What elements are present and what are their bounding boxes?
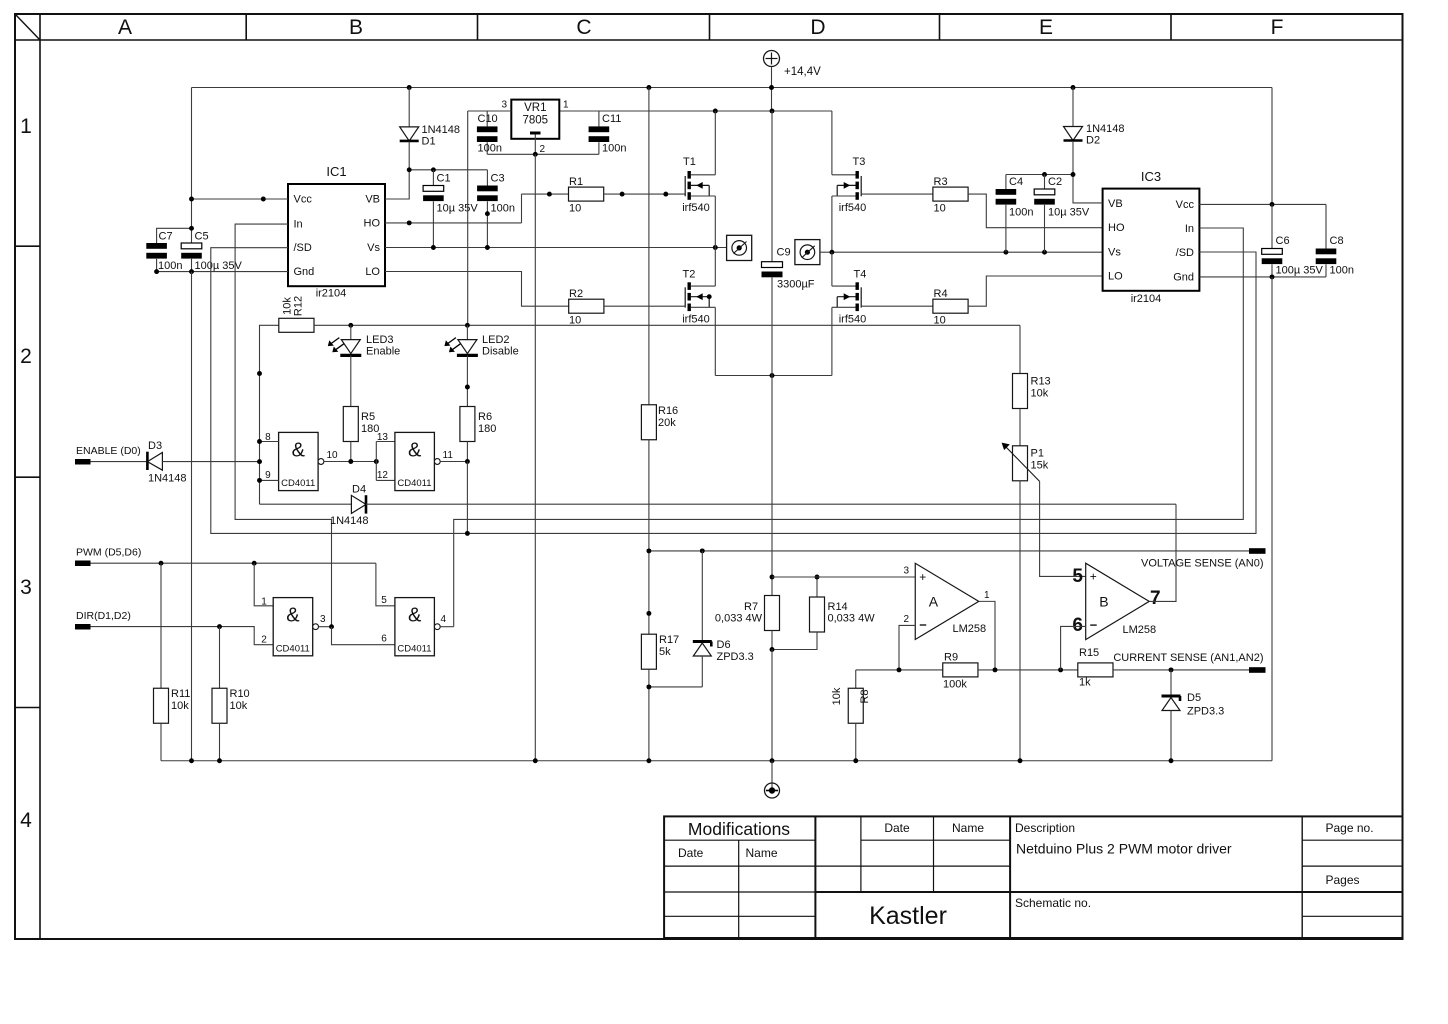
wire IC3 Vcc (1199, 88, 1326, 207)
svg-text:/SD: /SD (294, 242, 312, 254)
svg-text:100n: 100n (1330, 265, 1354, 277)
svg-text:VB: VB (1108, 198, 1123, 210)
svg-text:20k: 20k (658, 417, 676, 429)
svg-text:6: 6 (1072, 615, 1083, 636)
connector M- (795, 240, 832, 265)
svg-text:R11: R11 (171, 688, 190, 700)
svg-text:D1: D1 (422, 136, 436, 148)
diode D1 1N4148 (400, 88, 460, 170)
svg-text:R14: R14 (828, 601, 848, 613)
wire ground rail (161, 758, 1272, 763)
svg-text:D2: D2 (1086, 135, 1100, 147)
capacitor C6 100u 35V (1262, 204, 1324, 277)
svg-text:2: 2 (903, 614, 909, 625)
op-amp B LM258 (1061, 504, 1176, 670)
svg-text:Modifications: Modifications (688, 819, 790, 839)
svg-text:100n: 100n (158, 260, 182, 272)
svg-text:R9: R9 (944, 652, 958, 664)
resistor R15 1k (1078, 647, 1249, 689)
wire IC1 HO (385, 194, 522, 225)
svg-text:Page no.: Page no. (1326, 821, 1374, 835)
svg-text:2: 2 (261, 635, 267, 646)
op-amp A LM258 (772, 563, 995, 670)
svg-text:LO: LO (1108, 271, 1123, 283)
svg-text:100n: 100n (478, 143, 502, 155)
svg-text:10k: 10k (230, 700, 248, 712)
capacitor C1 10u 35V (423, 170, 478, 248)
title block (664, 816, 1402, 938)
svg-text:&: & (292, 439, 306, 461)
svg-text:R5: R5 (361, 411, 375, 423)
svg-text:Name: Name (952, 821, 984, 835)
svg-text:13: 13 (377, 432, 389, 443)
svg-text:HO: HO (1108, 222, 1125, 234)
svg-text:+: + (1090, 570, 1097, 584)
svg-text:D4: D4 (352, 484, 366, 496)
svg-text:5k: 5k (659, 646, 671, 658)
wire IC1 In bus (235, 224, 331, 626)
wire VR1 pin2 gnd (487, 135, 599, 761)
svg-text:irf540: irf540 (682, 202, 710, 214)
wire VR1 pin3 to +5 rail (468, 111, 512, 325)
LED LED2 Disable (444, 325, 518, 406)
svg-text:R4: R4 (934, 288, 948, 300)
svg-text:10: 10 (327, 450, 339, 461)
svg-text:11: 11 (443, 450, 454, 461)
resistor R8 10k (831, 670, 871, 761)
wire IC1 Vs (385, 245, 727, 250)
svg-text:C8: C8 (1330, 235, 1344, 247)
svg-text:ENABLE (D0): ENABLE (D0) (76, 445, 141, 457)
svg-text:A: A (118, 16, 132, 39)
capacitor C7 100n (146, 226, 194, 272)
resistor R17 5k (641, 634, 702, 761)
resistor R5 180 (343, 407, 379, 462)
svg-text:&: & (408, 439, 422, 461)
svg-text:R6: R6 (478, 411, 492, 423)
capacitor C4 100n (996, 175, 1034, 253)
svg-text:D6: D6 (717, 639, 731, 651)
diode D3 1N4148 (147, 440, 259, 485)
svg-text:C1: C1 (437, 173, 451, 185)
svg-text:IC3: IC3 (1141, 169, 1161, 184)
diode D4 1N4148 (260, 484, 1177, 528)
svg-text:5: 5 (1072, 566, 1083, 587)
svg-text:C2: C2 (1048, 176, 1062, 188)
svg-text:10k: 10k (1031, 388, 1049, 400)
svg-text:CD4011: CD4011 (397, 478, 431, 489)
svg-text:1: 1 (20, 115, 32, 138)
svg-text:irf540: irf540 (682, 314, 710, 326)
svg-text:6: 6 (381, 634, 387, 645)
zener diode D5 ZPD3.3 (1162, 670, 1225, 761)
svg-text:C: C (576, 16, 591, 39)
svg-text:ZPD3.3: ZPD3.3 (1187, 706, 1224, 718)
svg-text:4: 4 (20, 809, 32, 832)
LED LED3 Enable (328, 325, 400, 406)
wire +14.4V top rail (192, 87, 1273, 89)
resistor R14 0,033 4W (770, 575, 876, 652)
svg-text:P1: P1 (1031, 448, 1044, 460)
wire +5 rail (257, 323, 1020, 376)
svg-text:&: & (408, 605, 422, 627)
svg-text:Pages: Pages (1326, 873, 1360, 887)
svg-text:R12: R12 (293, 296, 305, 316)
svg-text:CURRENT SENSE (AN1,AN2): CURRENT SENSE (AN1,AN2) (1113, 652, 1263, 664)
svg-text:1N4148: 1N4148 (422, 124, 461, 136)
wire Vs IC3 (829, 250, 1102, 255)
svg-text:T4: T4 (854, 269, 867, 281)
svg-text:10k: 10k (171, 700, 189, 712)
svg-text:C10: C10 (478, 113, 498, 125)
svg-text:R8: R8 (859, 689, 871, 703)
wire T2 T4 source node (715, 373, 832, 378)
wire IC1 LO to R2 (385, 272, 569, 307)
svg-text:1: 1 (984, 590, 990, 601)
svg-text:LM258: LM258 (953, 623, 987, 635)
svg-text:C5: C5 (195, 231, 209, 243)
op-IC IC3 ir2104 (1103, 169, 1200, 305)
resistor R2 10 (569, 288, 686, 327)
capacitor C5 100u 35V (181, 231, 242, 273)
svg-text:VR1: VR1 (524, 102, 546, 114)
svg-text:3: 3 (903, 566, 909, 577)
svg-text:Name: Name (746, 846, 778, 860)
gate U1a CD4011 (pins 8 9 10) (257, 432, 379, 491)
svg-text:Vs: Vs (367, 242, 380, 254)
svg-text:T3: T3 (853, 156, 866, 168)
svg-text:C11: C11 (602, 113, 621, 125)
resistor R16 20k (641, 88, 678, 635)
svg-text:LO: LO (365, 266, 380, 278)
svg-text:ZPD3.3: ZPD3.3 (717, 651, 754, 663)
resistor R3 10 (933, 176, 1103, 228)
svg-text:10: 10 (569, 203, 581, 215)
svg-text:Date: Date (884, 821, 910, 835)
svg-text:3: 3 (501, 100, 507, 111)
svg-text:In: In (294, 219, 303, 231)
svg-text:1N4148: 1N4148 (1086, 123, 1125, 135)
svg-text:/SD: /SD (1176, 247, 1194, 259)
svg-text:2: 2 (540, 144, 546, 155)
svg-text:Disable: Disable (482, 346, 519, 358)
svg-text:Vcc: Vcc (294, 194, 313, 206)
resistor R11 10k (154, 563, 191, 761)
svg-text:1: 1 (563, 100, 569, 111)
svg-text:DIR(D1,D2): DIR(D1,D2) (76, 610, 131, 622)
resistor R10 10k (212, 627, 250, 761)
svg-text:1k: 1k (1079, 677, 1091, 689)
svg-text:1: 1 (261, 597, 267, 608)
wire IC3 VB node (1006, 172, 1103, 203)
gate U1c CD4011 (pins 1 2 3) (254, 563, 395, 656)
resistor R4 10 (933, 276, 1103, 327)
svg-text:D5: D5 (1187, 692, 1201, 704)
svg-text:Gnd: Gnd (1173, 272, 1194, 284)
wire R7 to ground (771, 650, 773, 761)
svg-text:Kastler: Kastler (869, 902, 947, 930)
wire IC3 In bus (454, 228, 1244, 627)
svg-text:5: 5 (381, 595, 387, 606)
wire IC3 /SD bus (211, 248, 1256, 534)
svg-text:B: B (349, 16, 363, 39)
regulator VR1 7805 (501, 100, 569, 156)
svg-text:+14,4V: +14,4V (784, 66, 821, 78)
wire +14.4V branch y111 (559, 88, 832, 112)
transistor T2 irf540 (682, 248, 715, 376)
svg-text:3300µF: 3300µF (777, 279, 815, 291)
svg-text:F: F (1271, 16, 1284, 39)
svg-text:0,033 4W: 0,033 4W (715, 613, 763, 625)
svg-text:VOLTAGE SENSE (AN0): VOLTAGE SENSE (AN0) (1141, 558, 1263, 570)
svg-text:T2: T2 (683, 269, 696, 281)
gate U1d CD4011 (pins 5 6 4) (376, 563, 454, 656)
wire IC1 Gnd (154, 269, 288, 761)
capacitor C9 3300uF (762, 111, 815, 376)
svg-text:ir2104: ir2104 (1131, 293, 1162, 305)
svg-text:LED3: LED3 (366, 334, 394, 346)
svg-text:Gnd: Gnd (294, 266, 315, 278)
svg-text:100n: 100n (1009, 207, 1033, 219)
svg-text:R1: R1 (569, 176, 583, 188)
label VOLTAGE SENSE (AN0) (1141, 548, 1265, 569)
transistor T3 irf540 (832, 111, 933, 252)
svg-text:15k: 15k (1031, 460, 1049, 472)
svg-text:Netduino Plus 2 PWM motor driv: Netduino Plus 2 PWM motor driver (1016, 841, 1232, 857)
diode D2 1N4148 (1064, 88, 1125, 175)
svg-text:CD4011: CD4011 (397, 643, 431, 654)
svg-text:LED2: LED2 (482, 334, 510, 346)
svg-text:irf540: irf540 (839, 202, 867, 214)
connector M+ (727, 235, 752, 260)
power symbol +14,4V (764, 51, 822, 88)
svg-text:10µ 35V: 10µ 35V (437, 203, 479, 215)
gate U1b CD4011 (pins 13 12 11) (376, 432, 470, 536)
zener diode D6 ZPD3.3 (693, 551, 754, 687)
resistor R1 10 (522, 176, 686, 215)
resistor R7 0,033 4W (715, 376, 780, 650)
svg-text:7: 7 (1150, 588, 1161, 609)
resistor R12 10k (260, 296, 315, 504)
svg-text:100n: 100n (602, 143, 626, 155)
svg-text:ir2104: ir2104 (316, 288, 347, 300)
svg-text:R10: R10 (230, 688, 250, 700)
svg-text:HO: HO (364, 218, 381, 230)
svg-text:4: 4 (441, 614, 447, 625)
svg-text:100n: 100n (491, 203, 515, 215)
node rail junctions (407, 85, 1076, 113)
svg-text:Vcc: Vcc (1176, 199, 1195, 211)
svg-text:3: 3 (20, 576, 32, 599)
svg-text:10: 10 (569, 315, 581, 327)
svg-text:A: A (929, 593, 939, 609)
svg-text:Date: Date (678, 846, 704, 860)
svg-text:R16: R16 (658, 405, 678, 417)
svg-text:1N4148: 1N4148 (148, 473, 187, 485)
svg-text:1N4148: 1N4148 (330, 515, 369, 527)
connector PWM (D5,D6) (75, 547, 376, 567)
svg-text:100µ 35V: 100µ 35V (1276, 265, 1324, 277)
svg-text:IC1: IC1 (326, 164, 346, 179)
svg-text:E: E (1039, 16, 1053, 39)
svg-text:D3: D3 (148, 440, 162, 452)
svg-text:10µ 35V: 10µ 35V (1048, 207, 1090, 219)
transistor T4 irf540 (832, 252, 933, 375)
capacitor C10 100n (477, 111, 502, 155)
resistor R6 180 (460, 407, 496, 462)
svg-text:Enable: Enable (366, 346, 400, 358)
svg-text:10: 10 (934, 203, 946, 215)
svg-text:VB: VB (365, 194, 380, 206)
capacitor C2 10u 35V (1034, 175, 1090, 253)
svg-text:R7: R7 (744, 601, 758, 613)
svg-text:2: 2 (20, 345, 32, 368)
svg-text:100k: 100k (943, 679, 967, 691)
wire voltage sense node (646, 548, 1249, 615)
capacitor C8 100n (1316, 204, 1354, 277)
svg-text:10: 10 (934, 315, 946, 327)
svg-text:10k: 10k (282, 297, 294, 315)
transistor T1 irf540 (682, 111, 715, 248)
svg-text:D: D (810, 16, 825, 39)
resistor R9 100k (856, 652, 1078, 691)
svg-text:T1: T1 (683, 156, 696, 168)
wire IC1 Vcc (189, 88, 288, 244)
connector DIR(D1,D2) (75, 610, 273, 645)
resistor R13 10k (1013, 325, 1051, 446)
svg-text:C4: C4 (1009, 176, 1023, 188)
svg-text:+: + (919, 570, 926, 584)
svg-text:3: 3 (320, 614, 326, 625)
svg-text:C3: C3 (491, 173, 505, 185)
svg-text:R15: R15 (1079, 647, 1099, 659)
ground connector symbol (765, 761, 780, 798)
svg-text:C9: C9 (777, 247, 791, 259)
op-IC IC1 ir2104 (288, 164, 385, 300)
svg-text:CD4011: CD4011 (281, 478, 315, 489)
svg-text:12: 12 (377, 470, 389, 481)
svg-text:0,033 4W: 0,033 4W (828, 613, 876, 625)
capacitor C3 100n (477, 170, 515, 248)
svg-text:Schematic no.: Schematic no. (1015, 896, 1091, 910)
wire IC3 Gnd (1199, 274, 1326, 760)
potentiometer P1 15k (1002, 443, 1086, 761)
svg-text:PWM (D5,D6): PWM (D5,D6) (76, 547, 141, 559)
svg-text:10k: 10k (831, 687, 843, 705)
svg-text:R3: R3 (934, 176, 948, 188)
svg-text:irf540: irf540 (839, 314, 867, 326)
svg-text:R13: R13 (1031, 376, 1051, 388)
svg-text:Description: Description (1015, 821, 1075, 835)
svg-text:7805: 7805 (523, 115, 549, 127)
svg-text:R2: R2 (569, 288, 583, 300)
capacitor C11 100n (589, 111, 627, 155)
svg-text:&: & (286, 605, 300, 627)
svg-text:R17: R17 (659, 634, 679, 646)
connector ENABLE (D0) (75, 445, 147, 465)
svg-text:8: 8 (265, 432, 271, 443)
svg-text:180: 180 (478, 423, 496, 435)
svg-text:CD4011: CD4011 (276, 643, 310, 654)
svg-text:LM258: LM258 (1123, 624, 1157, 636)
svg-text:C7: C7 (159, 231, 173, 243)
svg-text:9: 9 (265, 470, 271, 481)
svg-text:C6: C6 (1276, 235, 1290, 247)
svg-text:In: In (1185, 223, 1194, 235)
svg-text:B: B (1099, 593, 1108, 609)
label CURRENT SENSE (AN1,AN2) (1113, 652, 1265, 673)
svg-text:Vs: Vs (1108, 247, 1121, 259)
wire IC1 VB node (385, 167, 487, 199)
